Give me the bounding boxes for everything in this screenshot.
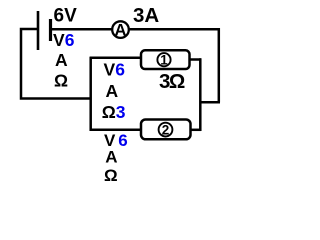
svg-text:V6: V6 (104, 60, 126, 80)
svg-text:A: A (105, 148, 117, 167)
battery B1 short plate (49, 19, 52, 41)
battery B1 long plate (37, 11, 40, 50)
wire: branch 2 left (90, 129, 142, 132)
svg-text:3A: 3A (133, 4, 159, 27)
svg-text:Ω: Ω (54, 71, 68, 91)
ammeter A1 (112, 21, 129, 38)
svg-text:V6: V6 (53, 30, 75, 50)
svg-text:2: 2 (162, 122, 170, 137)
svg-text:A: A (106, 81, 119, 101)
svg-text:1: 1 (160, 53, 168, 68)
wire: branch 2 right (190, 129, 202, 132)
svg-text:A: A (115, 22, 127, 40)
wire: parallel right vertical (199, 58, 202, 131)
svg-text:6V: 6V (54, 6, 78, 27)
resistor R1 circled number 1 (157, 53, 170, 66)
resistor R2 circled number 2 (159, 123, 173, 137)
wire: branch 1 right (190, 58, 202, 61)
wire: mid-right horizontal (200, 101, 221, 104)
svg-text:Ω: Ω (104, 166, 118, 185)
wire: battery left to top-left corner down left side to mid-left node (21, 29, 90, 99)
svg-text:3Ω: 3Ω (159, 70, 185, 93)
wire: parallel left vertical (89, 57, 92, 131)
svg-text:Ω3: Ω3 (102, 102, 126, 122)
svg-text:A: A (55, 50, 68, 70)
wire: branch 1 left (90, 57, 141, 60)
resistor R1 box (141, 50, 190, 69)
wire: ammeter right along top and down right side (129, 29, 219, 102)
resistor R2 box (141, 120, 191, 140)
wire: battery to ammeter (51, 28, 114, 31)
